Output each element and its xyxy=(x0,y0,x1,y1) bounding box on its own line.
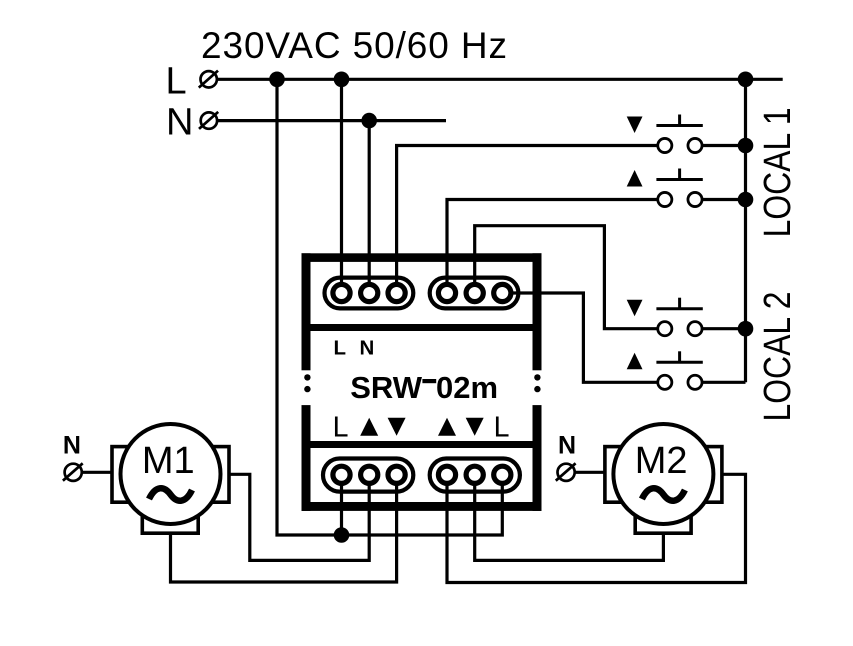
wire L feed to device input L xyxy=(340,79,343,293)
wire M2 right terminal to up output xyxy=(447,474,746,582)
wire M2 N terminal xyxy=(575,471,606,474)
junction output L line xyxy=(334,527,350,543)
wire input terminal 3 to LOCAL1 down switch xyxy=(397,146,657,294)
wire M1 bottom terminal to down output xyxy=(171,475,397,582)
wire M2 bottom terminal to down output xyxy=(475,475,664,561)
terminal block bottom-right xyxy=(430,459,520,492)
pin label down arrow right xyxy=(466,418,484,436)
wire LOCAL1 down switch to rail xyxy=(701,144,746,147)
pin label up arrow right xyxy=(438,418,456,436)
svg-text:LOCAL 2: LOCAL 2 xyxy=(757,292,799,422)
svg-text:N: N xyxy=(359,337,374,360)
terminal pin 6 xyxy=(494,284,511,301)
pushbutton S1 LOCAL1 down xyxy=(627,115,703,153)
module separator upper xyxy=(311,324,533,331)
terminal N (circle with slash) xyxy=(199,112,218,129)
motor M1 xyxy=(112,424,229,533)
terminal pin 4 xyxy=(438,284,455,301)
svg-text:N: N xyxy=(63,431,81,459)
svg-text:LOCAL 1: LOCAL 1 xyxy=(757,107,799,237)
svg-text:02m: 02m xyxy=(436,370,498,405)
pushbutton S3 LOCAL2 down xyxy=(627,298,703,336)
terminal pin 7 (M1 L) xyxy=(333,466,350,483)
svg-text:L: L xyxy=(494,412,510,444)
terminal pin 5 xyxy=(466,284,483,301)
terminal pin 8 (M1 up) xyxy=(361,466,378,483)
wire LOCAL1 up switch to rail xyxy=(701,198,746,201)
module DIN clip dots right xyxy=(534,374,540,380)
pin label up arrow left xyxy=(360,418,378,436)
wire right rail xyxy=(744,79,747,382)
wire LOCAL2 up switch to rail xyxy=(701,381,746,384)
wire L drop to output commons xyxy=(277,79,502,535)
svg-text:230VAC 50/60 Hz: 230VAC 50/60 Hz xyxy=(201,25,508,66)
junction L bus / right rail xyxy=(738,72,754,88)
svg-text:L: L xyxy=(334,337,347,360)
wire input terminal 4 to LOCAL1 up switch xyxy=(447,200,657,294)
terminal block top-left xyxy=(325,278,414,309)
svg-text:N: N xyxy=(558,431,576,459)
junction L bus / device input xyxy=(334,72,350,88)
svg-text:L: L xyxy=(166,61,187,103)
terminal pin 9 (M1 down) xyxy=(388,466,405,483)
wire input terminal 6 to LOCAL2 up switch xyxy=(502,293,657,382)
wire N bus xyxy=(217,119,446,122)
wire left output L terminal to junction xyxy=(340,475,343,535)
wire M1 right terminal to up output xyxy=(229,474,369,560)
terminal pin 2 (N in) xyxy=(361,284,378,301)
terminal pin 12 (M2 L) xyxy=(494,466,511,483)
junction rail / LOCAL1 down xyxy=(738,138,754,154)
motor M2 xyxy=(605,424,722,533)
terminal pin 10 (M2 up) xyxy=(438,466,455,483)
wire input terminal 5 to LOCAL2 down switch xyxy=(475,226,657,329)
terminal L (circle with slash) xyxy=(199,71,218,88)
module separator lower xyxy=(311,441,533,448)
svg-text:N: N xyxy=(166,102,193,144)
wire N feed to device input N xyxy=(368,121,371,293)
junction rail / LOCAL2 down xyxy=(738,321,754,337)
terminal pin 1 (L in) xyxy=(333,284,350,301)
junction rail / LOCAL1 up xyxy=(738,192,754,208)
junction L bus / L drop xyxy=(269,72,285,88)
svg-text:L: L xyxy=(333,412,349,444)
wire L bus xyxy=(217,78,783,81)
wire LOCAL2 down switch to rail xyxy=(701,327,746,330)
svg-text:M1: M1 xyxy=(142,440,195,482)
svg-text:M2: M2 xyxy=(635,440,688,482)
relay module U1 SRW-02m outline xyxy=(302,253,542,511)
wire M1 N terminal xyxy=(83,471,114,474)
terminal block top-right xyxy=(430,278,519,309)
pushbutton S2 LOCAL1 up xyxy=(627,169,703,207)
terminal block bottom-left xyxy=(323,459,413,492)
svg-text:SRW: SRW xyxy=(350,370,423,405)
pin label down arrow left xyxy=(388,418,406,436)
module DIN clip dots left xyxy=(304,374,310,380)
terminal pin 11 (M2 down) xyxy=(466,466,483,483)
pushbutton S4 LOCAL2 up xyxy=(627,351,703,389)
junction N bus / device input xyxy=(361,113,377,129)
terminal pin 3 xyxy=(388,284,405,301)
